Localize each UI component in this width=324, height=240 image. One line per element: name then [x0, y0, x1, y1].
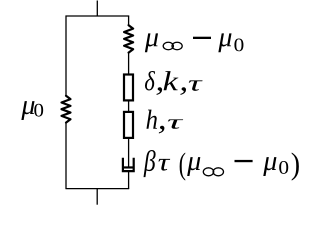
label mu0 (left branch)	[21, 101, 43, 120]
wire box2 to dashpot (piston rod)	[128, 138, 130, 167]
dashpot cup	[123, 158, 134, 171]
spring mu_inf - mu0 (right branch)	[124, 25, 133, 52]
bottom wire	[66, 188, 130, 190]
dashpot piston	[124, 166, 133, 168]
spring mu0 (left branch)	[62, 96, 71, 123]
right branch wire (top segment)	[128, 16, 130, 26]
top terminal stub	[96, 1, 98, 17]
wire spring to box1	[128, 53, 130, 74]
box element delta,k,tau	[124, 75, 133, 101]
wire dashpot to bottom	[128, 171, 130, 189]
label mu_inf - mu0 (right spring)	[145, 33, 244, 52]
left branch wire (lower)	[65, 123, 67, 189]
box element h,tau	[124, 112, 133, 138]
left branch wire (upper)	[65, 16, 67, 97]
label delta,k,tau (box1)	[145, 71, 203, 95]
top wire	[66, 15, 130, 17]
bottom terminal stub	[96, 189, 98, 205]
wire box1 to box2	[128, 100, 130, 112]
label h,tau (box2)	[146, 110, 183, 134]
label beta tau (mu_inf - mu0) (dashpot)	[144, 150, 299, 181]
